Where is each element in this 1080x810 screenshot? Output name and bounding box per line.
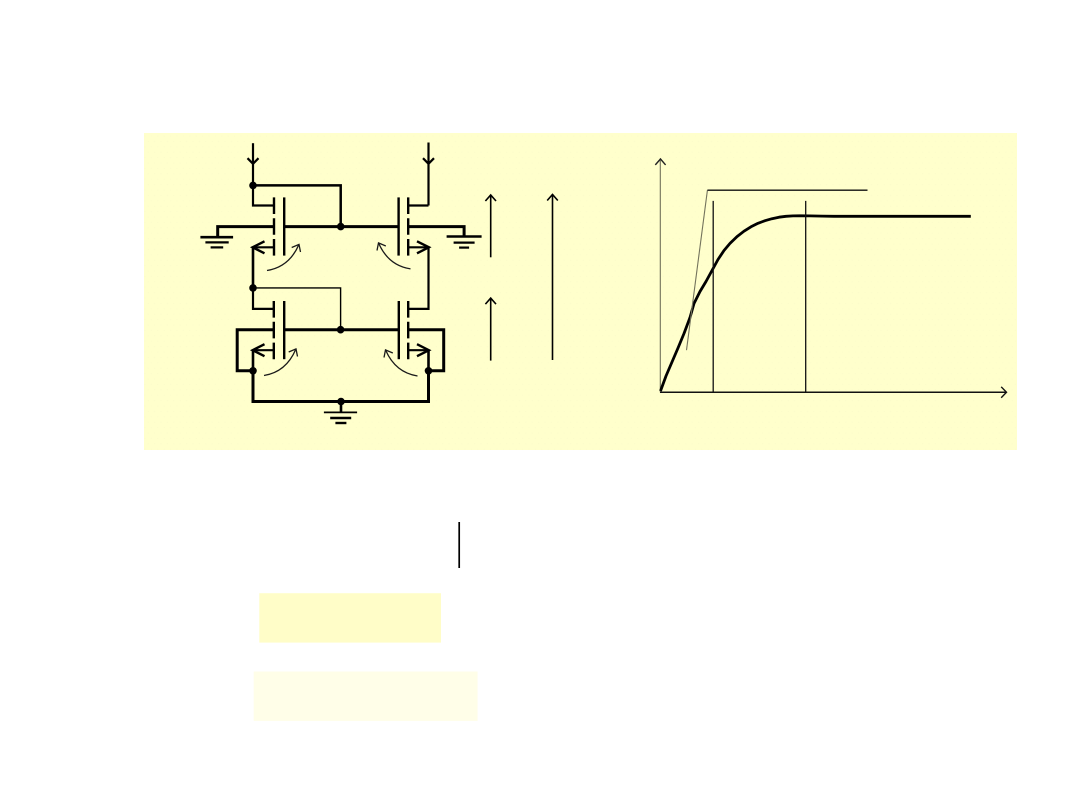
wire: M4 bulk bracket to source node: [408, 330, 444, 371]
current arc arrow M2: [377, 243, 411, 269]
wire: M2 bulk rail to right ground: [408, 227, 464, 236]
wire: M4 source to node: [427, 350, 430, 371]
ground left: [200, 237, 233, 247]
ground bottom: [324, 402, 357, 424]
annotation arrow V1 (upper): [485, 195, 496, 257]
graph vertical marker 1: [712, 201, 714, 392]
wire: M3 drain lead: [253, 288, 274, 309]
current arc arrow M3: [264, 349, 298, 376]
highlight box 1: [259, 593, 441, 642]
text cursor line: [458, 522, 460, 568]
graph x-axis: [660, 387, 1007, 398]
wire: M3 source to node: [252, 350, 255, 371]
ground right: [447, 237, 482, 248]
input current arrow left: [248, 143, 259, 185]
wire: M3 drain-gate diode connection (thin): [253, 288, 341, 330]
yellow slide panel: [144, 133, 1017, 450]
wire: M1 bulk rail to left ground: [218, 227, 274, 237]
wire: M2 drain lead: [408, 204, 428, 206]
wire: bottom rail: [253, 371, 429, 402]
wire: gate rail M1-M2: [284, 225, 398, 228]
transistor M4 (bottom-right): [399, 301, 429, 359]
transistor M3 (bottom-left): [253, 301, 285, 359]
graph saturation curve: [661, 216, 971, 391]
wire: gate rail M3-M4: [284, 328, 399, 331]
graph asymptote level line: [707, 189, 867, 191]
annotation arrow V3 (tall): [547, 194, 558, 360]
wire: M3 bulk bracket to source node: [237, 330, 274, 371]
graph vertical marker 2: [805, 201, 807, 392]
highlight box 2: [254, 672, 478, 721]
transistor M2 (top-right): [399, 197, 429, 255]
node A: common gate node: [337, 223, 345, 231]
wire: M2 source down to M4 drain: [408, 247, 428, 309]
wire: M1 drain lead: [253, 185, 274, 205]
current arc arrow M4: [384, 350, 418, 376]
current arc arrow M1: [267, 244, 301, 270]
wire: M1 source down to node: [252, 247, 255, 288]
node: M3 source node: [249, 367, 257, 375]
annotation arrow V2 (lower): [485, 298, 496, 361]
graph y-axis: [655, 159, 665, 393]
transistor M1 (top-left): [253, 197, 285, 255]
wire: M1 drain-gate diode connection: [253, 185, 341, 226]
node: top-left drain node: [249, 182, 257, 190]
node: bottom ground node: [337, 398, 345, 406]
node: M4 source node: [425, 367, 433, 375]
input current arrow right: [423, 143, 434, 206]
node: M1 source / M3 drain node: [249, 284, 257, 292]
node B: lower common gate node: [337, 326, 345, 334]
graph tangent line: [687, 190, 708, 350]
